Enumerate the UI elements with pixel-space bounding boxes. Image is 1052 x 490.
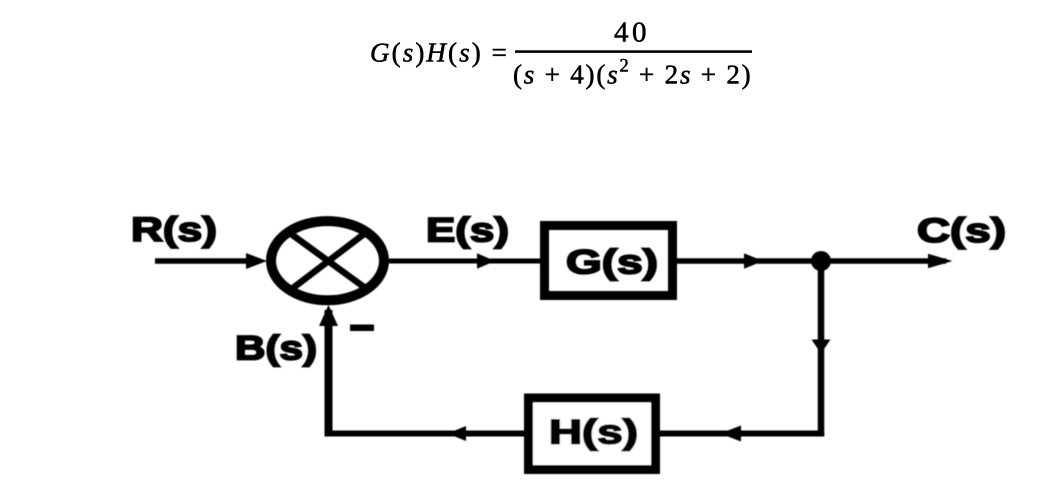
- svg-text:40: 40: [614, 17, 650, 49]
- svg-text:E(s): E(s): [426, 212, 509, 250]
- svg-text:R(s): R(s): [131, 211, 217, 249]
- svg-text:H(s): H(s): [549, 414, 638, 452]
- svg-text:(s + 4)(s2 + 2s + 2): (s + 4)(s2 + 2s + 2): [513, 57, 752, 90]
- svg-text:C(s): C(s): [917, 212, 1006, 250]
- svg-text:G(s)H(s) =: G(s)H(s) =: [370, 38, 509, 68]
- svg-text:B(s): B(s): [235, 330, 317, 368]
- svg-text:G(s): G(s): [566, 244, 658, 282]
